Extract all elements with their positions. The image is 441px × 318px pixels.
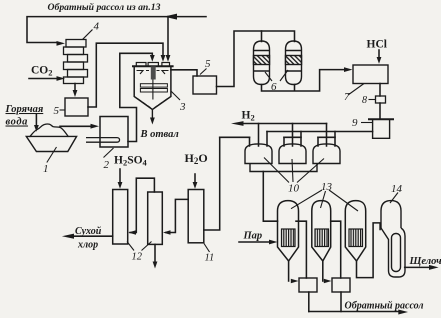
svg-text:8: 8	[362, 95, 367, 106]
vessel 1 (salt tank)	[26, 136, 76, 151]
wire: HCl feed down	[378, 50, 380, 57]
node: T-junction to vessel 3	[167, 17, 169, 55]
heater U-tube	[86, 138, 120, 143]
label 3 pointer	[171, 91, 180, 100]
svg-text:6: 6	[271, 81, 277, 93]
wire: vessel3 gas outlet to box 5	[171, 70, 197, 76]
wire: bottom return brine line	[309, 311, 399, 313]
svg-text:хлор: хлор	[77, 240, 98, 251]
wire: caustic outlet	[405, 266, 430, 268]
svg-text:вода: вода	[6, 117, 29, 128]
arrow: hot water	[34, 125, 39, 132]
wire: 11 side to 12b side	[166, 199, 188, 232]
wire: riser down to column 11	[204, 137, 220, 230]
label 11 pointer	[204, 244, 210, 253]
wire: box A and B down to brine line	[309, 292, 341, 312]
salt mound	[30, 124, 69, 137]
boxes A and B (salt separators)	[299, 278, 317, 292]
columns 6	[254, 41, 302, 85]
arrow: dry chlorine left	[62, 234, 74, 239]
label 12 pointers	[127, 242, 152, 251]
svg-text:Сухой: Сухой	[75, 226, 102, 237]
wire: return brine header from ap.13	[27, 17, 206, 43]
wire: V2 right side to box B	[331, 221, 341, 278]
wire: steam line	[239, 241, 270, 243]
wire: box7 to item8 to box9	[379, 84, 381, 120]
wire: hot water down	[35, 115, 37, 126]
label 2 pointer	[104, 148, 114, 158]
arrow: H2 export left	[231, 121, 244, 126]
box 5a (pump under tower)	[65, 98, 88, 116]
wire: box C and V14 connection	[357, 223, 381, 278]
waste arrow	[151, 110, 153, 119]
svg-text:5: 5	[54, 105, 60, 117]
arrow: tower4 to box5a	[73, 90, 78, 97]
svg-text:4: 4	[94, 21, 100, 33]
wire: columns 6 bottom header to box 7	[262, 70, 345, 91]
arrow: into vessel3 nozzle3 right	[166, 55, 171, 62]
arrow: 12b to 12a	[128, 230, 136, 235]
svg-text:Пар: Пар	[243, 231, 263, 242]
wire: line3 short from riser to bell1	[220, 136, 250, 138]
wire: tower4 to box S	[74, 84, 76, 91]
wire: H2 header line1	[243, 123, 327, 125]
vessel 3 (clarifier)	[132, 63, 174, 110]
svg-text:Щелочь: Щелочь	[409, 256, 441, 267]
svg-text:11: 11	[205, 253, 215, 264]
vessel 14	[381, 201, 405, 277]
box 5 (blower)	[193, 76, 217, 94]
evaporator V3 (13)	[345, 201, 365, 261]
arrow: steam into V1	[269, 240, 278, 245]
wire: H2O down	[194, 174, 196, 182]
svg-text:H2SO4: H2SO4	[114, 155, 148, 168]
label 1 pointer	[47, 147, 57, 163]
svg-text:5: 5	[205, 58, 211, 70]
arrow: 11 to 12b	[163, 230, 171, 235]
central hatched pipe	[151, 66, 156, 79]
label 4 pointer	[83, 30, 93, 40]
wire: bell pipes	[259, 124, 327, 147]
arrow: V2 to boxB	[324, 279, 332, 284]
svg-text:12: 12	[132, 252, 143, 263]
wire: col 6a top pipe	[261, 31, 263, 42]
wire: vessel1 to box2	[60, 125, 90, 127]
box 9 with lid	[368, 118, 394, 120]
svg-text:В отвал: В отвал	[140, 129, 180, 140]
columns 12a 12b 11	[113, 190, 128, 245]
distributor hooks	[137, 71, 169, 75]
svg-text:13: 13	[321, 181, 333, 193]
svg-text:3: 3	[179, 101, 186, 113]
bells 10	[245, 144, 340, 172]
label 10 pointers	[264, 158, 324, 183]
svg-text:7: 7	[344, 91, 350, 103]
arrow: into vessel3 nozzle2	[150, 55, 155, 62]
wire: CO2 feed	[29, 78, 56, 80]
arrow: into vessel3 nozzle3 left	[161, 55, 166, 62]
wire: box5 to columns 6 header	[217, 31, 295, 87]
box 7	[353, 65, 388, 84]
wire: H2 header line2 to box 9	[267, 131, 373, 133]
plates	[140, 84, 167, 87]
arrow: H2O down	[193, 182, 198, 189]
label 13 pointers	[291, 190, 358, 211]
arrow: top line direction	[164, 14, 177, 20]
wire: 12b bottom drain	[154, 244, 156, 261]
wire: 12b top to 12a side	[130, 178, 154, 232]
arrow: HCl down	[377, 57, 382, 64]
arrow: return brine out	[398, 310, 408, 315]
wire: dissolver 2 outlet up to vessel 3	[120, 53, 153, 141]
svg-text:HCl: HCl	[367, 39, 387, 51]
arrow: v otval	[150, 118, 155, 125]
box 2 (dissolver with heater)	[100, 117, 128, 148]
arrow: vessel1 to box2	[91, 124, 100, 129]
arrow: 12b drain down	[153, 262, 158, 269]
item 8	[376, 96, 386, 103]
arrow: CO2 into tower4	[57, 76, 66, 81]
evaporator V1 (13)	[278, 201, 299, 261]
arrow: into box7	[344, 67, 353, 72]
svg-text:Обратный рассол из ап.13: Обратный рассол из ап.13	[48, 2, 161, 13]
arrow: H2SO4 down	[118, 182, 123, 189]
wire: box 5a riser to vessel 3	[88, 43, 163, 107]
svg-text:10: 10	[288, 183, 300, 195]
arrow: V1 to boxA	[291, 279, 299, 284]
evaporator V2 (13)	[312, 201, 331, 261]
wire: V1 bottom drain	[288, 261, 290, 281]
wire: dry chlorine out	[73, 235, 113, 237]
tower 4 (CO2 absorber bricks)	[64, 40, 88, 84]
arrow: caustic out	[429, 265, 439, 270]
svg-text:Обратный рассол: Обратный рассол	[345, 301, 424, 312]
wire: H2SO4 down	[119, 169, 121, 182]
trough	[250, 164, 317, 172]
svg-text:14: 14	[391, 183, 403, 195]
svg-text:1: 1	[43, 163, 49, 175]
arrow: brine into tower4	[57, 41, 66, 46]
cone hatch dashes	[138, 99, 168, 108]
wire: V1 right side to box A	[296, 221, 306, 278]
svg-text:2: 2	[104, 159, 110, 171]
wire: V2 bottom drain	[322, 261, 324, 281]
wire: bells trough to evaporator V1	[263, 172, 277, 222]
svg-text:Горячая: Горячая	[5, 104, 44, 115]
svg-text:9: 9	[352, 117, 358, 129]
